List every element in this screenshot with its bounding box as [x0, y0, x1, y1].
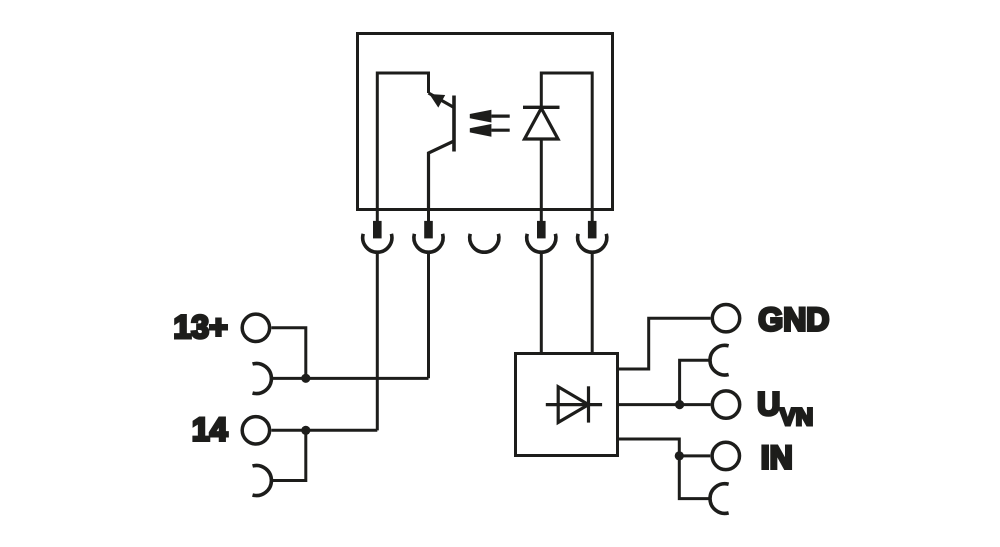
pin 1 socket arc [363, 234, 392, 252]
socket arc 14 [253, 466, 272, 496]
rectifier diode line [546, 403, 602, 406]
pin 2 contact blade [424, 221, 433, 239]
LED D1 triangle [525, 108, 559, 139]
pin 2 lead [427, 210, 430, 222]
rectifier diode triangle [558, 387, 588, 423]
socket arc 13+ [253, 364, 272, 394]
wire: to UVN socket arc [680, 360, 710, 404]
svg-text:GND: GND [758, 301, 829, 337]
junction dot 14 [301, 426, 310, 435]
wire: IN row [679, 454, 710, 457]
pin 1 contact blade [373, 221, 382, 239]
svg-text:14: 14 [192, 412, 228, 448]
terminal GND circle [712, 305, 739, 332]
terminal IN circle [712, 442, 739, 469]
unused middle socket arc [470, 234, 499, 252]
svg-text:U: U [757, 386, 780, 422]
wire: 14 bus row [271, 429, 377, 432]
phototransistor Q1 emitter lead and wire to pin2 [429, 141, 455, 210]
phototransistor Q1 collector lead [429, 93, 455, 108]
pin 2 socket arc [414, 234, 443, 252]
wire: to IN socket arc [679, 456, 710, 499]
pin 1 lead [376, 210, 379, 222]
wire: pin5 down to rectifier [591, 253, 594, 354]
junction dot 13+ [301, 374, 310, 383]
svg-text:IN: IN [761, 439, 793, 475]
LED D1 cathode bar [523, 106, 560, 109]
light arrow 2 [470, 124, 492, 137]
pin 5 contact blade [588, 221, 597, 239]
terminal 14 circle [242, 417, 269, 444]
wire: pin1 down to 14 bus [376, 253, 379, 431]
wire: pin1 up to collector loop [377, 73, 428, 210]
socket arc UVN plug [710, 345, 729, 375]
wire: pin2 down to 13+ bus [427, 253, 430, 378]
light arrow 1 [470, 110, 492, 123]
wire: LED loop pin4 to pin5 [541, 73, 592, 210]
optocoupler package outline [358, 34, 613, 210]
pin 4 socket arc [527, 234, 556, 252]
wire: 13+ bus row [271, 377, 428, 380]
rectifier block [516, 354, 618, 456]
wire: rectifier to UVN terminal [618, 403, 711, 406]
wire: pin4 down to rectifier [540, 253, 543, 354]
phototransistor Q1 collector arrow [429, 94, 445, 108]
rectifier diode bar [587, 386, 590, 422]
wire: 14 arc link [271, 430, 305, 480]
wire: rectifier to IN terminal [618, 439, 680, 456]
phototransistor Q1 base bar [452, 96, 456, 152]
svg-text:VN: VN [780, 404, 813, 431]
junction dot UVN [675, 400, 684, 409]
terminal 13+ circle [242, 314, 269, 341]
pin 4 lead [540, 210, 543, 222]
pin 4 contact blade [537, 221, 546, 239]
wire: 13+ circle to bus [271, 328, 305, 379]
socket arc IN plug [710, 484, 729, 514]
pin 5 socket arc [578, 234, 607, 252]
svg-text:13+: 13+ [174, 309, 228, 345]
junction dot IN [675, 451, 684, 460]
pin 5 lead [591, 210, 594, 222]
terminal UVN circle [712, 391, 739, 418]
wire: rectifier to GND terminal [618, 318, 711, 369]
